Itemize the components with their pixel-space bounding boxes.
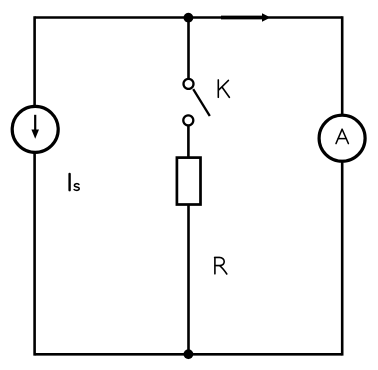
node bottom junction — [184, 349, 194, 359]
wire right vertical lower — [341, 162, 344, 356]
switch K — [183, 79, 210, 126]
wire right vertical upper — [341, 16, 344, 114]
label K — [218, 80, 229, 98]
wire top horizontal — [35, 16, 343, 19]
label R — [215, 257, 227, 274]
wire middle branch upper (node to switch) — [187, 18, 190, 79]
wire bottom horizontal — [35, 353, 343, 356]
current direction arrow on top wire — [221, 13, 271, 22]
wire left vertical upper — [33, 16, 36, 106]
label Is — [70, 174, 80, 190]
resistor R — [177, 158, 201, 205]
node top junction — [184, 13, 194, 23]
wire switch to resistor — [187, 126, 190, 158]
ammeter A — [319, 115, 365, 161]
wire left vertical lower — [33, 153, 36, 356]
current source Is — [12, 106, 58, 152]
wire resistor to bottom node — [187, 204, 190, 355]
